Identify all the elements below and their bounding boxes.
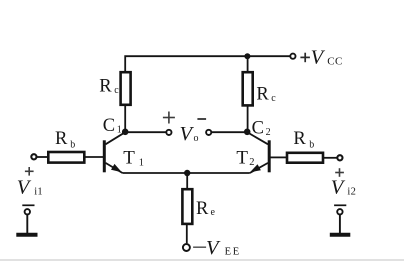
- label plus sign Vi1: [25, 167, 34, 176]
- node emitter junction: [184, 170, 190, 176]
- svg-text:2: 2: [249, 157, 254, 168]
- svg-text:R: R: [256, 85, 269, 105]
- label Re: [196, 199, 216, 219]
- svg-text:e: e: [211, 207, 216, 218]
- wire Rb to T1 base: [85, 156, 103, 158]
- svg-text:EE: EE: [225, 246, 241, 257]
- transistor T2: [247, 132, 269, 173]
- resistor Rc left: [121, 72, 131, 105]
- label plus sign Vi2: [335, 168, 344, 177]
- label Rb left: [55, 129, 75, 150]
- node C2: [244, 129, 251, 136]
- svg-text:2: 2: [266, 127, 271, 138]
- wire top rail VCC: [125, 56, 290, 71]
- label Vi1: [17, 177, 43, 199]
- terminal +VCC: [290, 54, 295, 59]
- wire left Rc to C1: [124, 106, 126, 132]
- label Rb right: [293, 129, 314, 151]
- svg-text:c: c: [271, 93, 276, 104]
- transistor T1: [104, 132, 125, 173]
- resistor Re: [182, 189, 192, 224]
- wire Re to VEE terminal: [186, 225, 188, 243]
- wire Vo right terminal to C2: [212, 131, 248, 133]
- ground source left (minus bar, terminal, stem, ground bar): [16, 205, 37, 234]
- terminal input Vi1: [31, 154, 36, 159]
- label Rc left: [99, 77, 119, 97]
- ground source right (minus bar, terminal, stem, ground bar): [330, 205, 351, 234]
- wire C1 to Vo left terminal: [125, 131, 166, 133]
- svg-text:R: R: [99, 77, 112, 97]
- label +VCC: [300, 47, 342, 69]
- node junction top right: [244, 53, 250, 59]
- wire junction to right Rc: [247, 56, 249, 71]
- terminal input Vi2: [337, 155, 342, 160]
- label Vi2: [331, 177, 356, 199]
- terminal -VEE: [183, 244, 190, 251]
- wire Vi1 terminal to Rb: [37, 156, 48, 158]
- svg-text:T: T: [123, 147, 135, 168]
- label plus sign above Vo left: [163, 112, 175, 124]
- label -VEE: [193, 237, 241, 259]
- wire right Rc to C2: [247, 107, 249, 132]
- label Rc right: [256, 85, 276, 105]
- svg-text:1: 1: [139, 157, 144, 168]
- svg-text:C: C: [103, 116, 115, 136]
- label T2: [236, 148, 254, 169]
- wire emitter rail: [123, 172, 250, 174]
- svg-text:b: b: [70, 139, 75, 150]
- svg-text:R: R: [293, 129, 306, 149]
- svg-text:c: c: [114, 85, 119, 96]
- svg-text:b: b: [309, 140, 314, 151]
- svg-text:CC: CC: [327, 55, 343, 67]
- wire junction to Re: [186, 173, 188, 188]
- terminal Vo minus: [206, 130, 211, 135]
- svg-text:T: T: [236, 148, 248, 169]
- resistor Rb right: [287, 153, 323, 163]
- label minus sign above Vo right: [197, 118, 206, 120]
- label Vo: [180, 123, 199, 145]
- wire Rb to Vi2 terminal: [324, 157, 337, 159]
- wire T2 base to Rb: [270, 156, 286, 158]
- node C1: [122, 129, 129, 136]
- svg-text:i2: i2: [347, 187, 356, 198]
- terminal Vo plus: [166, 130, 171, 135]
- resistor Rb left: [48, 152, 84, 163]
- label C1: [103, 116, 122, 136]
- label T1: [123, 147, 144, 168]
- resistor Rc right: [243, 72, 253, 105]
- page separator line bottom: [0, 259, 404, 261]
- svg-text:i1: i1: [34, 186, 43, 197]
- label C2: [252, 118, 271, 138]
- svg-text:o: o: [194, 133, 199, 144]
- svg-text:R: R: [55, 129, 68, 149]
- svg-text:R: R: [196, 199, 209, 219]
